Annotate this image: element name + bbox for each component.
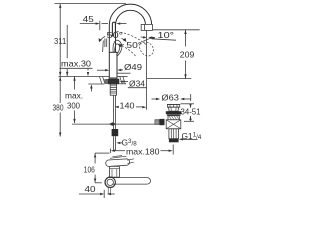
svg-text:40: 40 bbox=[85, 184, 96, 194]
50deg arc arrows bbox=[100, 36, 105, 41]
supply hoses bbox=[113, 95, 115, 129]
top view lever bbox=[106, 156, 134, 167]
svg-text:max.: max. bbox=[65, 90, 83, 100]
svg-text:380: 380 bbox=[53, 103, 64, 113]
dimension 106 bbox=[94, 153, 96, 163]
svg-text:300: 300 bbox=[67, 100, 80, 110]
svg-text:10°: 10° bbox=[158, 30, 175, 40]
drain main body bbox=[166, 120, 181, 129]
dimension D49 arrows bbox=[97, 69, 106, 71]
G 3/8 leader bbox=[116, 142, 120, 144]
svg-text:106: 106 bbox=[84, 164, 95, 174]
drain side spigot bbox=[160, 119, 165, 125]
dimension 209 bbox=[185, 30, 187, 47]
svg-text:max.30: max.30 bbox=[61, 58, 91, 68]
deck hatching bbox=[100, 77, 126, 84]
dimension 311 line bbox=[66, 25, 68, 59]
svg-text:34-51: 34-51 bbox=[181, 107, 201, 117]
pop-up rod bbox=[72, 123, 159, 125]
drain tailpipe bbox=[169, 129, 179, 139]
10 degree annotation bbox=[146, 30, 148, 109]
drain: plug cap bbox=[167, 105, 180, 108]
top view body neck bbox=[110, 166, 120, 177]
dimension max300 line bbox=[74, 77, 76, 90]
dimension 34-51 bbox=[190, 104, 192, 108]
svg-text:Ø63: Ø63 bbox=[161, 92, 179, 102]
svg-text:209: 209 bbox=[180, 49, 195, 59]
lever rotation dashed sweep bbox=[117, 32, 147, 45]
lever loop handle bbox=[113, 40, 122, 56]
hose connector bbox=[112, 129, 119, 136]
drain flange bbox=[166, 111, 182, 114]
dimension 380 line bbox=[55, 3, 127, 5]
dimension D63 bbox=[152, 98, 158, 100]
dimension 40 bbox=[79, 193, 101, 195]
dimension D34 arrow bbox=[120, 80, 124, 82]
lever rotated dashed position bbox=[140, 42, 154, 56]
svg-text:140: 140 bbox=[120, 101, 135, 111]
aerator tip bbox=[141, 24, 152, 30]
max30 leader bbox=[60, 67, 93, 69]
dimension 45 bbox=[80, 23, 96, 25]
body bbox=[109, 52, 117, 78]
spout arc outer+inner bbox=[109, 4, 151, 52]
svg-text:Ø34: Ø34 bbox=[129, 79, 145, 89]
mounting nut bbox=[104, 79, 108, 84]
threaded shank bbox=[110, 84, 116, 95]
svg-text:45: 45 bbox=[83, 14, 94, 24]
svg-text:max.180: max.180 bbox=[126, 146, 160, 156]
svg-text:50°: 50° bbox=[126, 40, 141, 50]
svg-text:Ø49: Ø49 bbox=[124, 62, 142, 72]
top view base circle bbox=[105, 177, 115, 187]
svg-text:50°: 50° bbox=[107, 30, 124, 40]
top view spout bar bbox=[108, 178, 150, 185]
dimension 140 bbox=[115, 106, 119, 108]
lever up position bbox=[112, 22, 115, 36]
dimension max180 bbox=[110, 149, 112, 154]
deck lines bbox=[59, 75, 110, 77]
drain cone neck bbox=[169, 107, 179, 111]
drain body under flange bbox=[168, 116, 179, 120]
G1 1/4 leader bbox=[179, 138, 183, 140]
svg-text:311: 311 bbox=[54, 36, 67, 46]
